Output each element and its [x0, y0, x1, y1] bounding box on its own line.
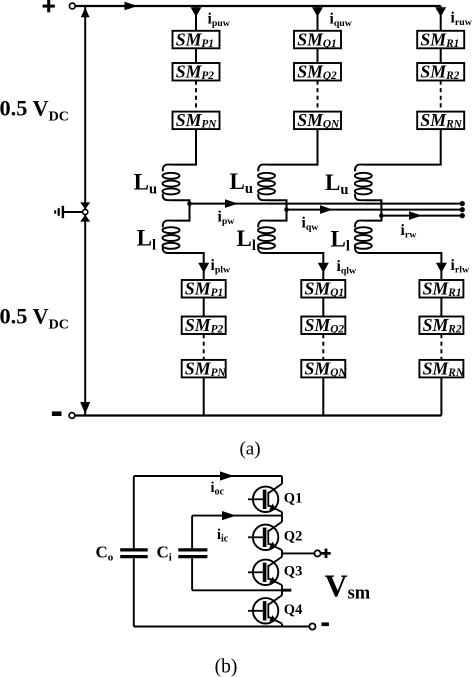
node DC midpoint circle [83, 209, 88, 214]
label i_qw [302, 215, 320, 233]
transistor Q3 [248, 557, 282, 585]
arrow arm current i_ruw [435, 7, 446, 17]
arrow arm current i_qlw [318, 263, 329, 273]
svg-text:(a): (a) [239, 439, 260, 460]
wire R lower SMN to bottom bus [440, 377, 442, 415]
wire P lower coil exit [173, 252, 205, 254]
wire phase P output line [190, 203, 463, 205]
node - terminal circle [69, 413, 75, 419]
arrow output current i_rw [409, 211, 422, 220]
voltage arrow up (top half) [81, 8, 90, 18]
node phase R output junction [379, 213, 384, 218]
submodule SM_P2 lower [182, 315, 226, 335]
submodule SM_PN lower [182, 359, 227, 379]
inductor Lu phase R [355, 165, 372, 201]
label Lu phase R [325, 170, 348, 198]
arrow arm current i_plw [198, 263, 209, 273]
label Q1 [284, 490, 303, 506]
wire P coil to node [173, 200, 191, 203]
inductor Lu phase P [163, 165, 180, 201]
label Vsm [325, 568, 371, 604]
svg-text:Q4: Q4 [284, 602, 303, 618]
wire Ci upper stem [191, 516, 193, 549]
wire Q upper jog [269, 164, 319, 166]
node phase P output end dot [460, 201, 465, 206]
arrow output current i_qw [320, 205, 333, 214]
wire chain bottom [281, 624, 283, 627]
wire chain Q1-Q2 [281, 512, 283, 522]
label - output [322, 622, 329, 626]
wire P lower SMN to bottom bus [203, 377, 205, 415]
node phase P output junction [187, 201, 192, 206]
wire Q junction to lower jog [269, 210, 288, 221]
wire phase R output line [381, 215, 462, 217]
wire P lower dashed (SM2..SMN) [203, 334, 205, 360]
wire Q lower between SM1-SM2 [322, 298, 324, 317]
submodule SM_R2 lower [419, 315, 463, 335]
submodule SM_R1 upper [417, 29, 464, 49]
label i_oc [211, 480, 225, 497]
wire P upper dashed (SM2..SMN) [195, 81, 197, 112]
wire R lower feeder [440, 253, 442, 280]
label Q2 [284, 528, 303, 544]
svg-text:Q2: Q2 [284, 528, 303, 544]
label i_rw [401, 222, 418, 240]
inductor Ll phase R [355, 221, 372, 253]
label Lu phase Q [230, 169, 253, 197]
submodule SM_P2 upper [173, 62, 220, 82]
wire Q lower dashed (SM2..SMN) [322, 334, 324, 360]
transistor Q2 [248, 522, 282, 550]
wire Q lower feeder [322, 253, 324, 280]
label + output [321, 549, 330, 558]
label i_plw [211, 257, 232, 275]
wire chain top [281, 476, 283, 484]
wire Ci to Q3-Q4 midpoint [192, 589, 291, 591]
wire + output lead [282, 552, 314, 554]
wire SM outer left upper [133, 476, 135, 548]
submodule SM_Q2 lower [301, 315, 345, 335]
arrow outer current i_oc [220, 471, 234, 480]
wire bottom DC bus [75, 414, 442, 416]
voltage arrow up (below midpoint) [80, 215, 90, 222]
ground [55, 206, 63, 218]
terminal - (negative DC terminal sign) [52, 411, 62, 416]
wire R lower between SM1-SM2 [440, 298, 442, 317]
node phase Q output end dot [460, 207, 465, 212]
label i_ic [217, 527, 229, 544]
node phase R output end dot [460, 213, 465, 218]
submodule SM_R1 lower [419, 279, 463, 299]
label Co [96, 543, 114, 564]
inductor Ll phase P [163, 221, 180, 253]
wire chain Q2-Q3 [281, 550, 283, 557]
wire P junction to lower jog [173, 204, 191, 221]
submodule SM_R2 upper [417, 62, 464, 82]
wire R upper dashed (SM2..SMN) [440, 81, 442, 112]
wire Q lower SMN to bottom bus [322, 377, 324, 415]
arrow arm current i_quw [312, 7, 323, 17]
transistor Q4 [248, 595, 282, 623]
terminal + (positive DC terminal sign) [43, 0, 55, 12]
wire SM outer left lower [133, 558, 135, 626]
submodule SM_RN upper [417, 110, 464, 130]
submodule SM_PN upper [173, 110, 220, 130]
inductor Ll phase Q [258, 221, 275, 253]
capacitor Co [120, 550, 148, 557]
label Ll phase R [331, 227, 350, 255]
wire R lower dashed (SM2..SMN) [440, 334, 442, 360]
wire R junction to lower jog [365, 216, 382, 221]
submodule SM_QN upper [294, 110, 341, 130]
wire SM bottom [134, 626, 309, 628]
label Lu phase P [134, 170, 157, 198]
wire Ci lower stem [191, 558, 193, 590]
svg-text:(b): (b) [215, 657, 238, 677]
submodule SM_P1 lower [182, 279, 226, 299]
label Q4 [284, 602, 303, 618]
submodule SM_RN lower [419, 359, 464, 379]
wire P upper jog [173, 164, 197, 166]
submodule SM_QN lower [301, 359, 347, 379]
wire Q coil to node [269, 200, 288, 209]
arrow inner current i_ic [222, 511, 236, 520]
submodule SM_Q1 upper [294, 29, 341, 49]
voltage arrow down (above midpoint) [80, 202, 90, 209]
node phase Q output junction [284, 207, 289, 212]
label i_rlw [451, 257, 470, 275]
node + terminal circle [69, 3, 75, 9]
arrow arm current i_rlw [436, 263, 447, 273]
label i_ruw [451, 10, 473, 28]
wire R lower coil exit [365, 252, 442, 254]
wire left DC-link bus [84, 6, 86, 416]
wire Q upper dashed (SM2..SMN) [317, 81, 319, 112]
wire top DC bus [75, 5, 441, 7]
svg-text:Q1: Q1 [284, 490, 303, 506]
label i_qlw [337, 258, 358, 276]
label i_quw [330, 11, 353, 29]
label Q3 [284, 563, 303, 579]
label 0.5 VDC lower [0, 303, 69, 332]
wire phase P upper feeder [195, 6, 197, 31]
arrow arm current i_puw [191, 7, 202, 17]
label Ci [157, 543, 172, 564]
node + output terminal [314, 550, 320, 556]
wire P lower between SM1-SM2 [203, 298, 205, 317]
wire phase Q upper feeder [317, 6, 319, 31]
capacitor Ci [178, 550, 207, 557]
inductor Lu phase Q [258, 165, 275, 201]
wire ground connector [63, 211, 83, 213]
node - output terminal [309, 623, 315, 629]
wire P upper SMN to inductor [195, 129, 197, 165]
label (b) [215, 657, 238, 677]
label 0.5 VDC upper [0, 95, 69, 124]
wire R upper SMN to inductor [440, 129, 442, 165]
submodule SM_Q2 upper [294, 62, 341, 82]
wire Q lower coil exit [269, 252, 325, 254]
label i_pw [218, 209, 236, 227]
label Ll phase Q [237, 226, 256, 254]
wire P lower feeder [203, 253, 205, 280]
arrow output current i_pw [225, 199, 238, 208]
wire Q upper SMN to inductor [317, 129, 319, 165]
wire phase Q output line [287, 209, 463, 211]
voltage arrow down (bottom) [80, 402, 90, 414]
wire chain Q3-Q4 [281, 585, 283, 595]
wire P upper between SM1-SM2 [195, 48, 197, 63]
transistor Q1 [248, 484, 282, 512]
wire SM outer top [134, 475, 282, 477]
submodule SM_Q1 lower [301, 279, 345, 299]
label Ll phase P [137, 226, 156, 254]
wire phase R upper feeder [440, 6, 442, 31]
wire R upper between SM1-SM2 [440, 48, 442, 63]
wire SM inner top [192, 515, 282, 517]
wire Q upper between SM1-SM2 [317, 48, 319, 63]
wire R coil to node [365, 200, 382, 215]
submodule SM_P1 upper [173, 29, 220, 49]
svg-text:Q3: Q3 [284, 563, 303, 579]
wire R upper jog [365, 164, 441, 166]
label i_puw [208, 11, 231, 29]
top bus current arrow [125, 2, 138, 11]
label (a) [239, 439, 260, 460]
